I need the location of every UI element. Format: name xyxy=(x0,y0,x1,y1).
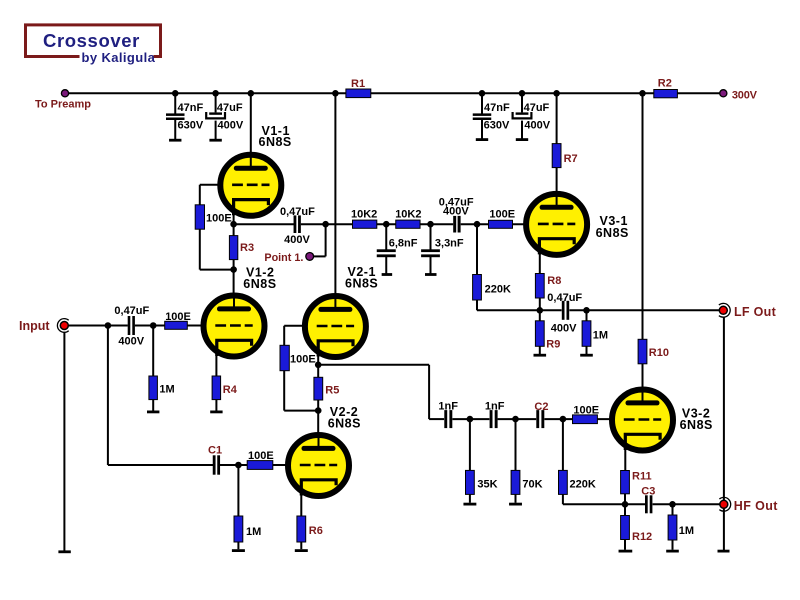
stub 47nF right xyxy=(476,138,488,141)
wire 47uF drop xyxy=(215,93,217,112)
wire R5 column xyxy=(317,365,319,411)
node junction xyxy=(248,90,255,97)
wire V1-1 grid vertical via 100E xyxy=(199,185,201,270)
resistor 1M (C1 row) xyxy=(234,516,243,542)
ground input xyxy=(58,550,70,553)
wire V2-1 grid vertical via 100E xyxy=(283,326,285,411)
wire 1M column C1 xyxy=(237,465,239,549)
wire V2-1 grid horizontal xyxy=(284,325,304,327)
svg-text:100E: 100E xyxy=(248,450,274,462)
ground 70K xyxy=(509,503,522,506)
title box frame xyxy=(26,25,161,57)
svg-text:220K: 220K xyxy=(570,479,596,491)
node junction xyxy=(315,407,322,414)
node junction xyxy=(519,90,526,97)
wire filter row segment 4 xyxy=(544,418,609,420)
node junction xyxy=(622,501,629,508)
wire filter row segment 1 xyxy=(429,418,444,420)
node junction xyxy=(553,90,560,97)
resistor 100E (input row) xyxy=(165,321,188,329)
svg-text:300V: 300V xyxy=(732,89,758,101)
wire R12 to ground xyxy=(624,540,626,550)
svg-text:1M: 1M xyxy=(159,384,174,396)
wire Point 1 horizontal xyxy=(313,255,325,257)
wire V3-1 cathode via R8 xyxy=(539,250,541,310)
resistor 10K2 (first) xyxy=(353,220,377,228)
node junction xyxy=(150,322,157,329)
svg-text:0,47uF: 0,47uF xyxy=(114,305,149,317)
node junction xyxy=(332,90,339,97)
resistor R5 xyxy=(314,377,323,400)
resistor 1M (input) xyxy=(149,376,158,400)
wire R9 column xyxy=(539,310,541,354)
wire HF row left xyxy=(563,503,645,505)
wire 47nF stub lead xyxy=(174,120,176,140)
svg-text:47nF: 47nF xyxy=(178,102,204,114)
capacitor C3 xyxy=(645,495,652,513)
resistor 35K xyxy=(466,470,475,494)
resistor 100E (V3-1 grid) xyxy=(489,220,513,228)
ground R6 xyxy=(295,549,308,552)
svg-text:0,47uF: 0,47uF xyxy=(547,292,582,304)
wire 6,8nF stub lead xyxy=(385,257,387,274)
resistor R10 xyxy=(638,339,647,364)
node junction xyxy=(560,416,567,423)
ground R9 xyxy=(534,354,547,357)
svg-text:R2: R2 xyxy=(658,78,672,90)
triode V3-1 6N8S xyxy=(526,193,587,255)
wire input ground column xyxy=(63,332,65,551)
svg-text:1nF: 1nF xyxy=(485,401,505,413)
svg-text:R9: R9 xyxy=(546,339,560,351)
svg-text:C3: C3 xyxy=(641,486,655,498)
capacitor 47nF 630V (right pair) xyxy=(473,113,492,120)
wire V1-1 cathode to node xyxy=(233,210,235,224)
resistor R9 xyxy=(535,321,544,347)
terminal HF Out jack xyxy=(719,497,730,511)
wire to R5 bottom node xyxy=(284,410,318,412)
wire V2-1 anode drop xyxy=(334,93,336,296)
wire 47nF drop xyxy=(174,93,176,113)
stub 47uF right xyxy=(516,138,528,141)
wire 47uF stub lead 2 xyxy=(521,121,523,140)
stub 47uF left xyxy=(209,139,221,142)
wire 47nF stub lead 2 xyxy=(481,120,483,140)
resistor 100E (V1-1 grid) xyxy=(195,205,204,229)
wire R11 to R12 xyxy=(624,494,626,516)
node junction xyxy=(322,221,329,228)
svg-text:6N8S: 6N8S xyxy=(259,135,292,149)
svg-text:R3: R3 xyxy=(240,242,254,254)
resistor R7 xyxy=(552,144,561,168)
wire V1-1 anode drop xyxy=(250,93,252,155)
svg-text:400V: 400V xyxy=(218,120,244,132)
svg-text:70K: 70K xyxy=(522,479,542,491)
svg-text:R7: R7 xyxy=(564,153,578,165)
svg-text:6N8S: 6N8S xyxy=(680,418,713,432)
wire row A segment 3 xyxy=(461,223,524,225)
ground R12 xyxy=(619,550,633,553)
svg-text:Input: Input xyxy=(19,319,50,333)
wire 35K column xyxy=(469,419,471,503)
wire filter row segment 2 xyxy=(452,418,489,420)
terminal To Preamp xyxy=(61,90,68,97)
resistor R3 xyxy=(229,236,237,260)
capacitor C1 xyxy=(213,455,220,474)
node junction xyxy=(230,266,237,273)
wire cathode row horizontal xyxy=(318,364,429,366)
svg-text:6,8nF: 6,8nF xyxy=(389,237,418,249)
svg-text:C2: C2 xyxy=(534,401,548,413)
node junction xyxy=(669,501,676,508)
capacitor C2 xyxy=(536,410,544,428)
resistor R11 xyxy=(621,471,630,494)
capacitor 0,47uF 400V (LF out) xyxy=(562,301,569,320)
svg-text:R10: R10 xyxy=(649,347,669,359)
capacitor 47nF 630V (left pair) xyxy=(166,113,185,120)
wire 1M column HF xyxy=(672,504,674,550)
svg-text:35K: 35K xyxy=(477,479,497,491)
wire cathode row drop xyxy=(428,365,430,419)
node junction xyxy=(474,221,481,228)
wire R10 to V3-2 anode xyxy=(642,93,644,389)
triode V3-2 6N8S xyxy=(612,389,673,451)
svg-text:1nF: 1nF xyxy=(438,401,458,413)
wire C1 row right xyxy=(220,464,287,466)
node junction xyxy=(537,307,544,314)
wire node to Point 1 vertical xyxy=(325,224,327,256)
resistor 10K2 (second) xyxy=(396,220,420,228)
wire input row right xyxy=(135,325,202,327)
capacitor 0,47uF 400V (input) xyxy=(128,316,135,335)
svg-text:R1: R1 xyxy=(351,78,365,90)
svg-text:C1: C1 xyxy=(208,445,222,457)
node junction xyxy=(315,362,322,369)
wire B+ rail xyxy=(67,92,654,94)
wire input row left xyxy=(68,325,128,327)
svg-text:47uF: 47uF xyxy=(217,102,243,114)
node junction xyxy=(383,221,390,228)
capacitor 47uF 400V (right pair) xyxy=(513,112,532,118)
node junction xyxy=(235,462,242,469)
svg-text:10K2: 10K2 xyxy=(395,209,421,221)
svg-text:R12: R12 xyxy=(632,531,652,543)
wire V2-2 cathode via R6 xyxy=(300,490,302,549)
node junction xyxy=(467,416,474,423)
wire R7 to V3-1 anode xyxy=(556,93,558,194)
wire 3,3nF top lead xyxy=(430,224,432,250)
svg-text:6N8S: 6N8S xyxy=(596,226,629,240)
terminal Input jack xyxy=(57,319,68,333)
node junction xyxy=(639,90,646,97)
capacitor 6,8nF xyxy=(377,249,396,257)
wire 47uF drop 2 xyxy=(521,93,523,112)
svg-text:R5: R5 xyxy=(325,384,339,396)
wire rail to 300V terminal xyxy=(677,92,720,94)
node junction xyxy=(212,90,219,97)
wire V3-2 cathode to R11 xyxy=(624,437,626,471)
wire row A segment 1 xyxy=(234,223,294,225)
svg-text:400V: 400V xyxy=(443,206,469,218)
wire LF row left xyxy=(477,309,562,311)
triode V1-1 6N8S xyxy=(220,154,281,216)
svg-text:R4: R4 xyxy=(223,384,238,396)
svg-text:47uF: 47uF xyxy=(524,102,550,114)
svg-text:Crossover: Crossover xyxy=(43,30,140,51)
svg-text:6N8S: 6N8S xyxy=(328,417,361,431)
node junction xyxy=(172,90,179,97)
triode V2-1 6N8S xyxy=(305,296,366,358)
svg-text:100E: 100E xyxy=(573,404,599,416)
wire V1-2 cathode via R4 xyxy=(215,341,217,411)
wire V1-1 grid horizontal xyxy=(200,184,219,186)
svg-text:1M: 1M xyxy=(246,526,261,538)
svg-text:0,47uF: 0,47uF xyxy=(280,206,315,218)
wire LF row right xyxy=(569,309,719,311)
svg-text:6N8S: 6N8S xyxy=(345,277,378,291)
wire filter row segment 3 xyxy=(498,418,537,420)
svg-text:1M: 1M xyxy=(679,525,694,537)
ground 1M input xyxy=(147,411,159,414)
stub 6,8nF xyxy=(382,273,393,276)
resistor 100E (V3-2 grid) xyxy=(573,415,598,424)
resistor 100E (V2-1 grid) xyxy=(280,345,289,370)
wire V2-1 cathode to node xyxy=(317,341,319,365)
svg-text:R6: R6 xyxy=(309,525,323,537)
resistor 1M (HF out) xyxy=(668,515,677,540)
capacitor 1nF (first) xyxy=(444,410,452,428)
svg-text:Point 1.: Point 1. xyxy=(264,252,303,264)
svg-text:400V: 400V xyxy=(284,234,310,246)
node junction xyxy=(427,221,434,228)
svg-text:100E: 100E xyxy=(489,209,515,221)
resistor 100E (C1 row) xyxy=(247,461,273,470)
wire output shield column xyxy=(723,317,725,551)
resistor R12 xyxy=(621,516,630,540)
resistor R8 xyxy=(535,274,544,299)
svg-text:10K2: 10K2 xyxy=(351,209,377,221)
wire to R3 bottom node xyxy=(200,269,234,271)
node junction xyxy=(512,416,519,423)
svg-text:To Preamp: To Preamp xyxy=(35,99,91,111)
svg-text:630V: 630V xyxy=(484,119,510,131)
terminal 300V xyxy=(720,90,727,97)
ground 1M HF xyxy=(666,550,679,553)
ground 1M LF xyxy=(580,354,593,357)
capacitor 0,47uF 400V (before V3-1) xyxy=(453,216,460,233)
svg-text:R8: R8 xyxy=(547,275,561,287)
svg-text:400V: 400V xyxy=(118,335,144,347)
terminal LF Out jack xyxy=(719,303,730,317)
svg-text:6N8S: 6N8S xyxy=(243,277,276,291)
svg-text:by Kaligula: by Kaligula xyxy=(82,50,156,65)
svg-text:100E: 100E xyxy=(165,311,191,323)
svg-text:3,3nF: 3,3nF xyxy=(435,237,464,249)
wire 3,3nF stub lead xyxy=(430,257,432,274)
stub 3,3nF xyxy=(425,273,437,276)
resistor R1 (horizontal) xyxy=(346,89,371,98)
wire node to V2-2 anode xyxy=(317,411,319,435)
svg-text:400V: 400V xyxy=(524,119,550,131)
svg-text:630V: 630V xyxy=(178,120,204,132)
wire row A segment 2 xyxy=(301,223,453,225)
ground 1M C1 xyxy=(232,549,245,552)
capacitor 0,47uF 400V (V1-1 out) xyxy=(294,215,301,233)
resistor R2 (horizontal) xyxy=(654,90,678,98)
svg-text:220K: 220K xyxy=(485,284,511,296)
wire C1 row left xyxy=(108,464,213,466)
resistor R4 xyxy=(212,376,221,400)
svg-text:47nF: 47nF xyxy=(484,102,510,114)
capacitor 3,3nF xyxy=(421,249,440,257)
ground R4 xyxy=(210,411,222,414)
resistor 220K (V3-2 grid) xyxy=(559,470,568,494)
svg-text:HF Out: HF Out xyxy=(734,499,778,513)
svg-text:400V: 400V xyxy=(551,322,577,334)
resistor 1M (LF out) xyxy=(582,321,591,347)
ground 35K xyxy=(463,503,476,506)
wire 1M column LF xyxy=(586,310,588,354)
resistor R6 xyxy=(297,516,306,542)
svg-text:LF Out: LF Out xyxy=(734,305,777,319)
capacitor 47uF 400V (left pair) xyxy=(206,112,225,118)
wire 70K column xyxy=(515,419,517,503)
svg-text:1M: 1M xyxy=(593,329,608,341)
triode V1-2 6N8S xyxy=(204,295,265,357)
wire 220K column xyxy=(476,224,478,310)
svg-text:R11: R11 xyxy=(632,471,652,483)
stub 47nF left xyxy=(169,139,181,142)
node junction xyxy=(230,221,237,228)
wire 1M column input xyxy=(152,326,154,411)
svg-text:100E: 100E xyxy=(206,213,232,225)
node junction xyxy=(479,90,486,97)
wire input node drop xyxy=(107,326,109,466)
svg-text:100E: 100E xyxy=(290,354,316,366)
wire R3 column to V1-2 anode xyxy=(233,224,235,295)
node junction xyxy=(105,322,112,329)
triode V2-2 6N8S xyxy=(288,435,349,497)
white patch under subtitle xyxy=(80,52,154,62)
node junction xyxy=(583,307,590,314)
wire 220K column 2 xyxy=(562,419,564,504)
wire 47uF stub lead xyxy=(215,121,217,140)
wire 6,8nF top lead xyxy=(385,224,387,250)
resistor 220K (V3-1 grid) xyxy=(473,275,482,301)
resistor 70K xyxy=(511,470,520,494)
terminal Point 1 xyxy=(306,253,314,261)
ground output shield xyxy=(718,550,730,553)
wire HF row right xyxy=(653,503,720,505)
capacitor 1nF (second) xyxy=(490,410,498,428)
wire 47nF drop 2 xyxy=(481,93,483,113)
